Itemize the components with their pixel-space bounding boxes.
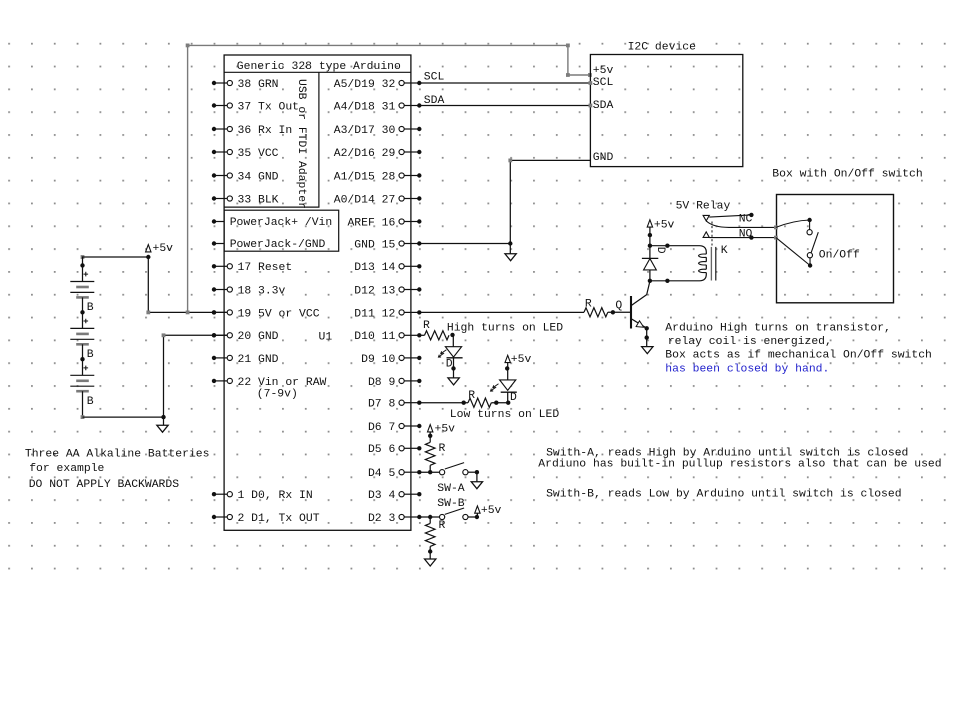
- svg-text:A3/D17 30: A3/D17 30: [334, 125, 396, 137]
- svg-text:SW-B: SW-B: [437, 498, 465, 510]
- svg-text:B: B: [87, 302, 94, 314]
- pin 20 GND (left): [212, 331, 279, 343]
- svg-text:PowerJack-/GND: PowerJack-/GND: [230, 239, 326, 251]
- svg-text:B: B: [87, 349, 94, 361]
- wire +5V bus from Arduino area to I2C device (gray): [186, 44, 592, 313]
- IC U1 Generic 328 type Arduino body: [224, 55, 411, 530]
- wire resistor to LED D1: [450, 333, 454, 347]
- ground (emitter): [642, 347, 653, 354]
- pin 18 3.3v (left): [212, 285, 286, 297]
- svg-text:SCL: SCL: [593, 77, 614, 89]
- pin 29 A2/D16 (right): [334, 148, 422, 160]
- svg-text:I2C device: I2C device: [628, 41, 697, 53]
- svg-text:33 BLK: 33 BLK: [238, 194, 279, 206]
- svg-text:D: D: [510, 392, 517, 404]
- svg-text:+5v: +5v: [654, 219, 675, 231]
- battery B cell 3: [70, 357, 94, 417]
- wire emitter to ground: [645, 326, 649, 347]
- +5V supply symbol (relay): [647, 219, 674, 245]
- svg-text:relay coil is energized,: relay coil is energized,: [668, 336, 832, 348]
- wire D2 to switch: [419, 515, 439, 519]
- battery B cell 2: [70, 310, 94, 361]
- LED D (low turns on): [491, 380, 518, 404]
- battery B cell 1: [70, 263, 94, 314]
- svg-text:35 VCC: 35 VCC: [238, 148, 279, 160]
- wire D4 to switch: [419, 470, 439, 474]
- svg-text:A1/D15 28: A1/D15 28: [334, 171, 396, 183]
- pin 4 D3 (right): [368, 490, 422, 502]
- relay NC contact: [709, 213, 753, 226]
- svg-text:PowerJack+ /Vin: PowerJack+ /Vin: [230, 217, 333, 229]
- pin 7 D6 (right): [368, 422, 422, 434]
- PowerJack sub-box: [224, 210, 339, 251]
- svg-text:R: R: [585, 298, 592, 310]
- pin 8 D7 (right): [368, 399, 422, 411]
- pin PowerJack-/GND: [212, 239, 326, 251]
- svg-text:+5v: +5v: [511, 354, 532, 366]
- svg-text:Box with On/Off switch: Box with On/Off switch: [772, 168, 922, 180]
- pin 14 D13 (right): [354, 262, 421, 274]
- relay common contact: [703, 215, 776, 227]
- svg-text:Q: Q: [615, 300, 622, 312]
- svg-text:A4/D18 31: A4/D18 31: [334, 101, 396, 113]
- ground (LED1): [448, 378, 459, 385]
- pin 33 BLK (left): [212, 194, 279, 206]
- svg-text:38 GRN: 38 GRN: [238, 79, 279, 91]
- svg-text:SCL: SCL: [424, 72, 445, 84]
- svg-text:D: D: [654, 247, 666, 254]
- svg-text:D8 9: D8 9: [368, 377, 396, 389]
- svg-text:R: R: [423, 320, 430, 332]
- pin 37 Tx Out (left): [212, 101, 299, 113]
- relay NO contact: [703, 229, 776, 241]
- IC I2C device box: [590, 41, 742, 166]
- svg-text:5V Relay: 5V Relay: [676, 200, 731, 212]
- svg-text:18 3.3v: 18 3.3v: [238, 285, 286, 297]
- svg-text:has been closed by hand.: has been closed by hand.: [665, 364, 829, 376]
- wire D7 to resistor: [419, 401, 468, 405]
- svg-text:36 Rx In: 36 Rx In: [238, 125, 293, 137]
- svg-text:Box acts as if mechanical On/O: Box acts as if mechanical On/Off switch: [665, 350, 932, 362]
- svg-text:D2 3: D2 3: [368, 513, 396, 525]
- svg-text:37 Tx Out: 37 Tx Out: [238, 101, 300, 113]
- wire SCL net: [419, 72, 592, 85]
- svg-text:U1: U1: [319, 332, 333, 344]
- svg-text:NO: NO: [739, 229, 753, 241]
- pin 3 D2 (right): [368, 513, 422, 525]
- pin 19 5V or VCC (left): [212, 308, 320, 320]
- +5V supply symbol (SW-B): [475, 505, 502, 517]
- +5V supply symbol (battery): [146, 243, 174, 259]
- svg-text:1 D0, Rx IN: 1 D0, Rx IN: [238, 490, 313, 502]
- pin 11 D10 (right): [354, 331, 421, 343]
- svg-text:D10 11: D10 11: [354, 331, 395, 343]
- resistor R (base): [584, 298, 608, 317]
- svg-text:A0/D14 27: A0/D14 27: [334, 194, 396, 206]
- svg-text:17 Reset: 17 Reset: [238, 262, 293, 274]
- pin 17 Reset (left): [212, 262, 292, 274]
- svg-text:GND 15: GND 15: [354, 239, 395, 251]
- pin 15 GND (right): [354, 239, 421, 251]
- wire pulldown to ground: [428, 546, 432, 559]
- svg-text:20 GND: 20 GND: [238, 331, 279, 343]
- svg-text:Three AA Alkaline Batteries: Three AA Alkaline Batteries: [25, 449, 210, 461]
- ground (SW-A): [471, 482, 482, 489]
- wire D10 to resistor: [419, 334, 424, 336]
- wire LED2 cathode to D7 wire: [507, 392, 509, 403]
- ground (I2C GND): [505, 254, 516, 261]
- pin PowerJack+ /Vin: [212, 217, 332, 229]
- wire resistor to LED2 node: [491, 401, 510, 405]
- svg-text:A2/D16 29: A2/D16 29: [334, 148, 396, 160]
- svg-text:D3 4: D3 4: [368, 490, 396, 502]
- svg-text:for example: for example: [29, 463, 104, 475]
- pin 27 A0/D14 (right): [334, 194, 422, 206]
- pin 32 A5/D19 (right): [334, 79, 422, 91]
- pin 9 D8 (right): [368, 377, 422, 389]
- wire I2C GND to ground: [419, 159, 590, 254]
- LED D (high turns on): [438, 347, 462, 371]
- svg-text:GND: GND: [593, 152, 614, 164]
- svg-text:Generic 328 type Arduino: Generic 328 type Arduino: [237, 61, 401, 73]
- svg-text:USB or FTDI Adapter: USB or FTDI Adapter: [295, 79, 307, 209]
- pin 36 Rx In (left): [212, 125, 292, 137]
- resistor R (LED2 series): [468, 390, 491, 407]
- svg-text:K: K: [721, 245, 728, 257]
- svg-text:(7-9v): (7-9v): [257, 388, 298, 400]
- +5V supply symbol (SW-A pullup): [428, 423, 456, 442]
- svg-text:R: R: [439, 443, 446, 455]
- svg-text:D11 12: D11 12: [354, 308, 395, 320]
- pin 35 VCC (left): [212, 148, 279, 160]
- pin 12 D11 (right): [354, 308, 421, 320]
- svg-text:DO NOT APPLY BACKWARDS: DO NOT APPLY BACKWARDS: [29, 479, 180, 491]
- svg-text:R: R: [439, 520, 446, 532]
- transistor Q (NPN): [615, 281, 650, 328]
- pin 10 D9 (right): [361, 354, 421, 366]
- svg-text:D6 7: D6 7: [368, 422, 395, 434]
- svg-text:SW-A: SW-A: [437, 483, 465, 495]
- svg-text:B: B: [87, 396, 94, 408]
- pin 34 GND (left): [212, 171, 279, 183]
- ground (SW-B): [425, 559, 436, 566]
- wire LED cathode to ground: [451, 358, 455, 378]
- +5V supply symbol (LED2): [505, 354, 531, 380]
- node relay coil bottom: [648, 279, 670, 283]
- relay mechanical link (dashed): [711, 222, 713, 246]
- wire D11 to base resistor: [419, 311, 584, 313]
- wire battery + to +5V: [81, 255, 149, 265]
- node relay coil top: [648, 244, 670, 248]
- ground (battery minus): [157, 417, 168, 432]
- pin 22 Vin or RAW (left): [212, 377, 327, 389]
- USB or FTDI adapter sub-box: [224, 72, 319, 209]
- pin 13 D12 (right): [354, 285, 421, 297]
- svg-text:Low turns on LED: Low turns on LED: [450, 409, 560, 421]
- wire pullup to D4 wire: [429, 465, 431, 472]
- wire resistor to base: [608, 310, 631, 314]
- svg-text:AREF 16: AREF 16: [347, 217, 395, 229]
- svg-text:34 GND: 34 GND: [238, 171, 279, 183]
- pin 28 A1/D15 (right): [334, 171, 422, 183]
- svg-text:Arduino High turns on transist: Arduino High turns on transistor,: [665, 323, 891, 335]
- svg-text:+5v: +5v: [435, 423, 456, 435]
- wire relay common into box: [774, 218, 812, 230]
- pin 1 D0, Rx IN (left): [212, 490, 313, 502]
- svg-text:+5v: +5v: [481, 505, 502, 517]
- wire relay NO into box: [774, 236, 812, 268]
- diode D (flyback): [642, 246, 666, 281]
- svg-text:D7 8: D7 8: [368, 399, 396, 411]
- svg-text:D5 6: D5 6: [368, 444, 396, 456]
- svg-text:SDA: SDA: [424, 95, 445, 107]
- svg-text:A5/D19 32: A5/D19 32: [334, 79, 396, 91]
- svg-text:Ardiuno has built-in pullup re: Ardiuno has built-in pullup resistors al…: [538, 459, 941, 471]
- svg-text:+5v: +5v: [593, 65, 614, 77]
- wire battery - to ground and pin 20: [81, 333, 228, 419]
- svg-text:High turns on LED: High turns on LED: [447, 323, 563, 335]
- svg-text:19 5V or VCC: 19 5V or VCC: [238, 308, 320, 320]
- svg-text:On/Off: On/Off: [819, 249, 860, 261]
- wire SDA net: [419, 95, 592, 107]
- svg-text:2 D1, Tx OUT: 2 D1, Tx OUT: [238, 513, 320, 525]
- resistor R (SW-A pullup): [425, 442, 445, 465]
- switch SW-B: [440, 508, 469, 520]
- resistor R (LED1 series): [423, 320, 449, 340]
- pin 21 GND (left): [212, 354, 279, 366]
- pin 5 D4 (right): [368, 468, 422, 480]
- switch On/Off: [807, 230, 860, 262]
- svg-text:NC: NC: [739, 214, 753, 226]
- pin 2 D1, Tx OUT (left): [212, 513, 320, 525]
- pin 30 A3/D17 (right): [334, 125, 422, 137]
- resistor R (SW-B pulldown): [425, 517, 445, 546]
- svg-text:Swith-B, reads Low by Arduino: Swith-B, reads Low by Arduino until swit…: [546, 488, 901, 500]
- wire SW-B to +5V: [468, 515, 479, 519]
- svg-text:R: R: [468, 390, 475, 402]
- svg-text:SDA: SDA: [593, 100, 614, 112]
- wire +5V to pin 19: [146, 257, 227, 315]
- svg-text:D4 5: D4 5: [368, 468, 396, 480]
- relay coil K: [650, 245, 728, 281]
- pin 16 AREF (right): [347, 217, 421, 229]
- svg-text:22 Vin or RAW: 22 Vin or RAW: [238, 377, 327, 389]
- pin 6 D5 (right): [368, 444, 422, 456]
- svg-text:Swith-A, reads High by Arduino: Swith-A, reads High by Arduino until swi…: [546, 447, 908, 459]
- pin 31 A4/D18 (right): [334, 101, 422, 113]
- svg-text:+5v: +5v: [153, 243, 174, 255]
- svg-text:21 GND: 21 GND: [238, 354, 279, 366]
- wire SW-A to ground: [468, 470, 479, 482]
- pin 38 GRN (left): [212, 79, 279, 91]
- svg-text:D12 13: D12 13: [354, 285, 395, 297]
- box with On/Off switch: [772, 168, 922, 302]
- svg-text:D9 10: D9 10: [361, 354, 395, 366]
- svg-text:D13 14: D13 14: [354, 262, 395, 274]
- switch SW-A: [437, 463, 468, 496]
